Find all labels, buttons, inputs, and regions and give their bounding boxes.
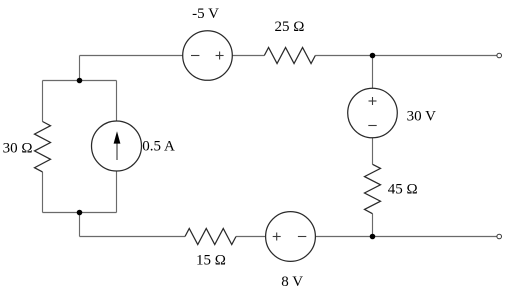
node A junction dot (top right) bbox=[370, 53, 376, 59]
wire: top rail between source V1 and resistor R1 bbox=[232, 55, 264, 57]
wire: left branch top (to 30 ohm resistor) bbox=[42, 81, 44, 122]
wire: left branch bottom (from 30 ohm resistor) bbox=[42, 172, 44, 213]
svg-text:8 V: 8 V bbox=[281, 274, 303, 290]
resistor R4 15 ohm (bottom, horizontal zigzag) bbox=[185, 229, 236, 245]
open terminal (bottom right) bbox=[497, 234, 502, 239]
wire: bottom-left vertical from left-loop node down to bottom rail bbox=[79, 213, 81, 237]
svg-text:45 Ω: 45 Ω bbox=[388, 182, 418, 198]
svg-text:-5 V: -5 V bbox=[192, 6, 219, 22]
wire: bottom rail between R4 and source V3 bbox=[236, 236, 266, 238]
wire: resistor R3 down to bottom node B bbox=[372, 214, 374, 237]
wire: current source bottom lead bbox=[116, 171, 118, 213]
node D junction dot (left loop bottom) bbox=[77, 210, 83, 216]
resistor R3 45 ohm (right, vertical zigzag) bbox=[365, 164, 381, 213]
node B junction dot (bottom right) bbox=[370, 234, 376, 240]
voltage source V3 8 V (circle) bbox=[266, 212, 316, 262]
open terminal (top right) bbox=[497, 53, 502, 58]
wire: top-left vertical from top rail corner down to left-loop node bbox=[79, 56, 81, 81]
svg-text:25 Ω: 25 Ω bbox=[275, 19, 305, 35]
resistor R1 25 ohm (top, horizontal zigzag) bbox=[264, 48, 315, 64]
wire: node A down to 30 V source bbox=[372, 56, 374, 89]
V1 minus sign bbox=[191, 55, 199, 57]
svg-text:15 Ω: 15 Ω bbox=[196, 252, 226, 268]
svg-text:30 Ω: 30 Ω bbox=[3, 141, 33, 157]
wire: bottom rail left segment to resistor R4 bbox=[80, 236, 186, 238]
wire: current source top lead bbox=[116, 81, 118, 122]
V1 plus sign bbox=[216, 55, 224, 57]
node C junction dot (left loop top) bbox=[77, 78, 83, 84]
wire: 30 V source down to resistor R3 bbox=[372, 138, 374, 165]
current source I1 0.5 A (circle) bbox=[92, 121, 142, 171]
resistor R2 30 ohm (left, vertical zigzag) bbox=[35, 122, 51, 172]
V3 plus sign bbox=[273, 236, 281, 238]
wire: left loop bottom rail bbox=[43, 212, 117, 214]
current source I1 arrow bbox=[114, 131, 121, 160]
wire: top rail left segment bbox=[80, 55, 183, 57]
svg-text:30 V: 30 V bbox=[407, 108, 436, 124]
V3 minus sign bbox=[298, 236, 306, 238]
wire: left loop top rail bbox=[43, 80, 117, 82]
svg-text:0.5 A: 0.5 A bbox=[142, 139, 175, 155]
V2 minus sign bbox=[368, 125, 376, 127]
voltage source V1 -5 V (circle) bbox=[183, 31, 233, 81]
V2 plus sign bbox=[369, 100, 377, 102]
voltage source V2 30 V (circle) bbox=[348, 88, 398, 138]
wire: top rail from R1 past node A to right terminal bbox=[315, 55, 497, 57]
wire: bottom rail from V3 past node B to right terminal bbox=[315, 236, 497, 238]
